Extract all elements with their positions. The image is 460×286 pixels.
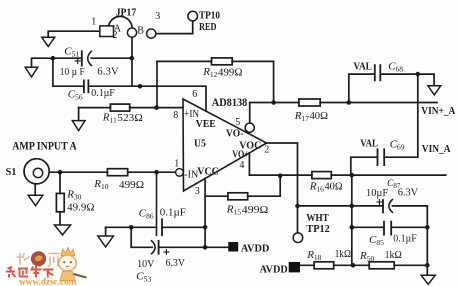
svg-text:TP10: TP10 <box>199 11 220 22</box>
svg-text:0.1µF: 0.1µF <box>160 207 186 218</box>
svg-text:2: 2 <box>264 145 269 156</box>
svg-text:VO-: VO- <box>226 129 244 140</box>
svg-text:4: 4 <box>239 160 244 171</box>
svg-text:AMP INPUT A: AMP INPUT A <box>12 141 77 153</box>
svg-text:-IN: -IN <box>184 170 198 181</box>
svg-text:499Ω: 499Ω <box>119 180 144 191</box>
svg-text:40Ω: 40Ω <box>325 182 343 193</box>
svg-text:0.1µF: 0.1µF <box>393 234 417 245</box>
svg-text:1kΩ: 1kΩ <box>385 250 402 261</box>
svg-text:S1: S1 <box>6 166 16 178</box>
svg-text:10 µ F: 10 µ F <box>60 67 85 78</box>
svg-text:U5: U5 <box>194 139 206 150</box>
svg-text:TP12: TP12 <box>306 224 329 235</box>
svg-text:VAL: VAL <box>354 61 372 72</box>
svg-text:0.1µF: 0.1µF <box>91 88 115 99</box>
svg-text:VAL: VAL <box>360 139 378 150</box>
svg-text:6: 6 <box>192 89 197 100</box>
svg-text:AVDD: AVDD <box>260 265 289 276</box>
svg-text:2: 2 <box>113 30 118 41</box>
svg-text:5: 5 <box>235 117 240 128</box>
svg-text:VEE: VEE <box>196 119 216 130</box>
svg-text:VO+: VO+ <box>232 149 249 160</box>
svg-text:6.3V: 6.3V <box>97 66 119 77</box>
svg-text:3: 3 <box>195 186 200 197</box>
svg-text:VCC: VCC <box>197 167 219 178</box>
svg-text:499Ω: 499Ω <box>242 205 269 216</box>
svg-text:www.dzsc.com: www.dzsc.com <box>19 278 77 286</box>
svg-text:8: 8 <box>173 110 178 121</box>
svg-text:VIN+_A: VIN+_A <box>421 106 456 117</box>
svg-text:499Ω: 499Ω <box>218 67 243 78</box>
svg-text:10V: 10V <box>137 259 155 270</box>
svg-text:1: 1 <box>174 158 179 169</box>
svg-text:RED: RED <box>199 22 217 33</box>
svg-text:JP17: JP17 <box>116 8 137 19</box>
svg-text:40Ω: 40Ω <box>310 111 329 122</box>
svg-text:49.9Ω: 49.9Ω <box>67 203 94 214</box>
svg-text:AVDD: AVDD <box>241 244 270 255</box>
svg-text:1kΩ: 1kΩ <box>335 249 352 260</box>
svg-text:WHT: WHT <box>306 213 328 224</box>
svg-text:3: 3 <box>155 11 160 22</box>
svg-text:10µF: 10µF <box>366 188 388 199</box>
svg-text:6.3V: 6.3V <box>166 258 186 269</box>
svg-text:1: 1 <box>91 17 96 28</box>
svg-text:B: B <box>137 26 144 37</box>
svg-text:6.3V: 6.3V <box>398 187 419 198</box>
svg-text:AD8138: AD8138 <box>212 95 248 109</box>
svg-text:523Ω: 523Ω <box>117 113 143 124</box>
svg-text:VIN_A: VIN_A <box>422 144 451 155</box>
